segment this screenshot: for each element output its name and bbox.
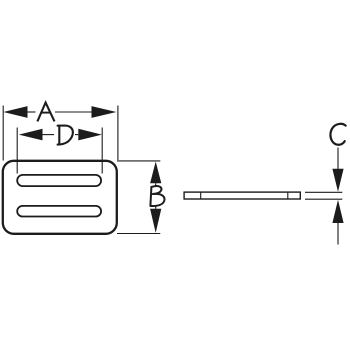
dimension D arrow left	[19, 129, 43, 141]
dimension D line right segment	[75, 134, 78, 136]
dimension A line left segment	[28, 111, 36, 113]
dimension A extension line left	[2, 106, 4, 161]
dimension B extension line top	[117, 160, 160, 162]
label B	[150, 186, 164, 206]
label C	[330, 124, 345, 145]
dimension C line bottom segment	[337, 223, 339, 245]
dimension A line right segment	[55, 111, 92, 113]
dimension A arrow left	[3, 106, 27, 118]
dimension C extension line top	[305, 191, 342, 193]
dimension B arrow bottom	[150, 209, 161, 233]
dimension B line top segment	[155, 183, 157, 186]
dimension D extension line right	[101, 128, 103, 174]
dimension D arrow right	[78, 129, 102, 141]
dimension C arrow bottom	[332, 200, 343, 223]
dimension B extension line bottom	[117, 233, 160, 235]
dimension B line bottom segment	[155, 206, 157, 209]
dimension C line top segment	[337, 148, 339, 170]
side view fold line left	[200, 192, 202, 199]
dimension A extension line right	[117, 106, 119, 161]
side view bar	[184, 192, 300, 199]
slot upper	[17, 175, 101, 186]
dimension A arrow right	[92, 106, 117, 118]
dimension D line left segment	[43, 134, 55, 136]
dimension C arrow top	[332, 169, 343, 192]
side view fold line right	[287, 192, 289, 199]
buckle body (front view)	[3, 161, 117, 234]
label A	[37, 103, 54, 122]
label D	[58, 126, 73, 145]
dimension C extension line bottom	[305, 198, 342, 200]
slot lower	[17, 206, 101, 217]
dimension B arrow top	[150, 162, 161, 184]
dimension D extension line left	[16, 128, 18, 174]
